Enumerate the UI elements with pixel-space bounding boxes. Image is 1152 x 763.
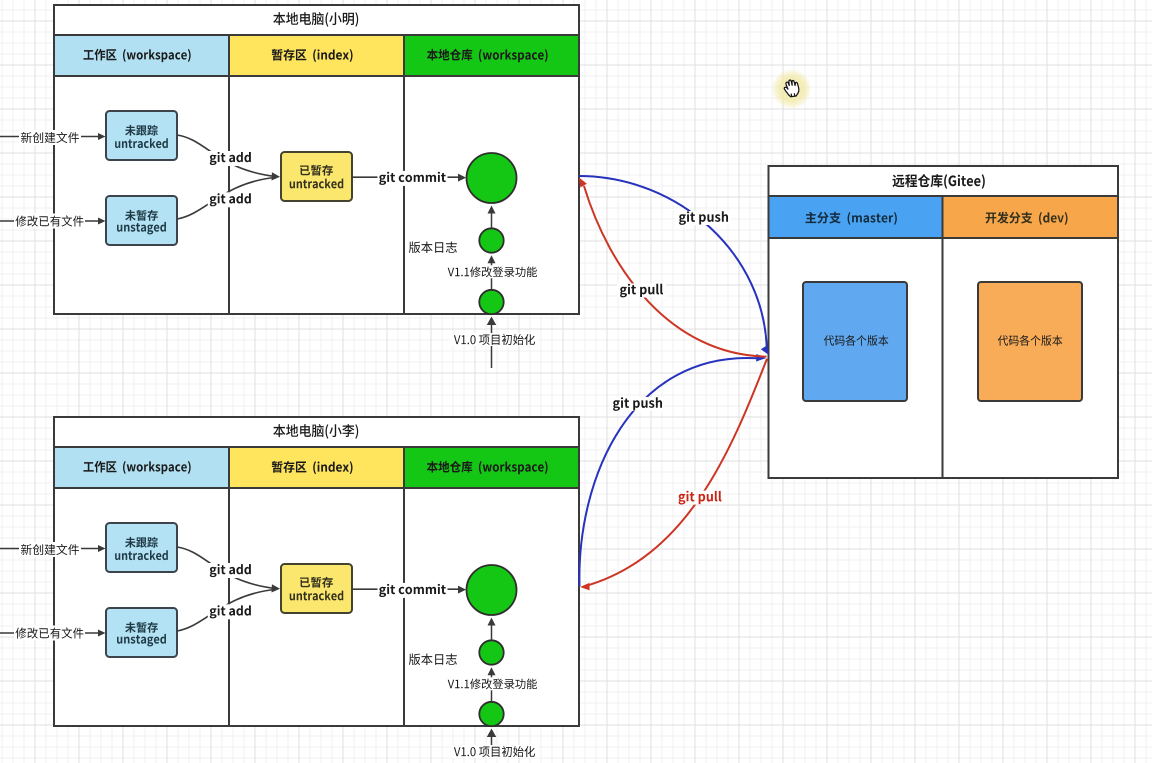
column divider 2 — [403, 76, 405, 314]
commit circle big — [467, 153, 517, 203]
header cell 工作区 — [54, 447, 229, 488]
label git push (top) — [679, 211, 728, 225]
header cell 暂存区 — [229, 447, 404, 488]
label git push (bottom) — [613, 397, 662, 411]
wire arrow mid->big circle — [491, 212, 493, 229]
wire git push curve (top, blue) — [579, 176, 767, 352]
box 代码各个版本 (dev) — [978, 282, 1082, 401]
box 未跟踪 untracked — [106, 523, 177, 572]
label 新创建文件 — [21, 544, 79, 555]
panel frame 本地电脑(小明) — [54, 5, 579, 314]
header cell 开发分支 (dev) — [943, 196, 1119, 238]
label git add 2 — [208, 192, 253, 207]
header cell 暂存区 — [229, 35, 404, 76]
label V1.0 项目初始化 — [454, 334, 535, 345]
wire git add curve from 未暂存 — [177, 178, 275, 220]
label git pull (top) — [620, 284, 663, 298]
label git add 1 — [208, 563, 253, 578]
label 修改已有文件 — [15, 627, 83, 638]
label git commit — [379, 584, 446, 597]
label V1.0 项目初始化 — [454, 746, 535, 757]
commit circle bottom — [479, 702, 503, 726]
wire 修改已有文件 arrow — [0, 220, 102, 222]
label git add 2 — [208, 604, 253, 619]
box 代码各个版本 (master) — [803, 282, 907, 401]
remote column divider — [942, 238, 944, 478]
arrowhead git push bottom — [756, 354, 766, 362]
commit circle big — [467, 565, 517, 615]
box 已暂存 untracked (staged) — [281, 152, 352, 201]
label V1.1修改登录功能 — [448, 267, 537, 278]
wire 新创建文件 arrow — [0, 548, 102, 550]
label git add 1 — [208, 151, 253, 166]
wire git commit — [352, 176, 462, 178]
panel frame 本地电脑(小李) — [54, 417, 579, 726]
panel title 本地电脑(小明) — [273, 12, 358, 27]
label git pull (bottom, red) — [679, 491, 722, 505]
wire git commit — [352, 588, 462, 590]
header cell 本地仓库 — [404, 447, 579, 488]
header cell 工作区 — [54, 35, 229, 76]
wire arrow bottom->mid circle — [491, 674, 493, 702]
wire arrow mid->big circle — [491, 624, 493, 641]
wire git pull curve (top, red) — [584, 186, 767, 357]
commit circle middle — [479, 228, 503, 252]
label 新创建文件 — [21, 132, 79, 143]
wire git pull curve (bottom, red) — [584, 359, 767, 587]
wire git add curve from 未暂存 — [177, 590, 275, 632]
box 未暂存 unstaged — [106, 608, 177, 657]
wire 新创建文件 arrow — [0, 136, 102, 138]
commit circle bottom — [479, 290, 503, 314]
wire git push curve (bottom, blue) — [579, 358, 758, 586]
wire git add curve from 未跟踪 — [177, 547, 276, 589]
box 未跟踪 untracked — [106, 111, 177, 160]
panel title 本地电脑(小李) — [273, 424, 358, 439]
wire arrow bottom->mid circle — [491, 262, 493, 290]
commit circle middle — [479, 640, 503, 664]
header cell 本地仓库 — [404, 35, 579, 76]
label V1.1修改登录功能 — [448, 679, 537, 690]
wire git add curve from 未跟踪 — [177, 135, 276, 177]
panel title 远程仓库(Gitee) — [892, 174, 984, 189]
header cell 主分支 (master) — [769, 196, 943, 238]
column divider 1 — [228, 488, 230, 726]
panel frame 远程仓库(Gitee) — [769, 166, 1119, 478]
wire 修改已有文件 arrow — [0, 632, 102, 634]
box 未暂存 unstaged — [106, 196, 177, 245]
column divider 2 — [403, 488, 405, 726]
box 已暂存 untracked (staged) — [281, 564, 352, 613]
hand cursor — [783, 79, 800, 98]
wire arrow below bottom circle — [491, 323, 493, 368]
label 版本日志 — [409, 654, 457, 666]
wire arrow below bottom circle — [491, 735, 493, 763]
cursor glow — [772, 69, 812, 109]
label 版本日志 — [409, 242, 457, 254]
label git commit — [379, 172, 446, 185]
label 修改已有文件 — [15, 215, 83, 226]
column divider 1 — [228, 76, 230, 314]
